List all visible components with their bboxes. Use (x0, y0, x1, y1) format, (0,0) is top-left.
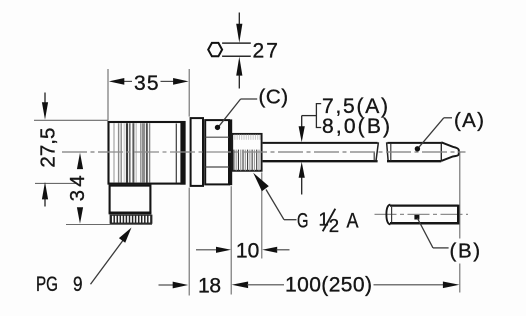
dim 27 lower flat line (222, 55, 251, 57)
dim 27 hexagon symbol (208, 43, 222, 56)
dim 35 left arrow (109, 78, 125, 85)
label (A) leader diagonal (418, 118, 444, 149)
extension line connector bottom (27,5) (35, 182, 76, 184)
fraction slash (323, 209, 336, 232)
svg-text:10: 10 (236, 240, 260, 263)
hex flats lines (205, 136, 228, 138)
extension line probe tip lower part (459, 264, 461, 293)
svg-text:PG: PG (36, 273, 58, 296)
extension line flange-left (35 right / 18 left) upper (188, 69, 190, 117)
PG 9 leader line (91, 239, 125, 284)
dim 35 right arrow (173, 78, 189, 85)
dim 100 left arrow (232, 282, 249, 289)
dim 34 bottom arrow (77, 207, 83, 224)
PG 9 leader arrow (119, 228, 132, 243)
dim 18 left arrow tail (159, 284, 174, 286)
dim 100 line right (374, 284, 445, 286)
thread hatch upper (235, 135, 260, 140)
extension line flange-left lower (188, 188, 190, 296)
label G 1/2 A leader arrow (253, 173, 269, 192)
svg-text:(A): (A) (454, 109, 484, 132)
connector body inner cap line (175, 124, 177, 183)
dim 27 bottom arrow (236, 57, 242, 76)
extension line body-left above (35) (107, 69, 109, 121)
dim 7,5/8,0 down arrow stem (301, 116, 303, 127)
probe B centerline (375, 213, 469, 215)
probe tube B inner chamfer line (391, 207, 393, 222)
probe tube A left segment bottom (263, 160, 378, 162)
probe tube B top (390, 204, 458, 206)
dim 27,5 top arrow (42, 102, 48, 120)
dim 100 line left (247, 284, 284, 286)
tube A break start line (387, 142, 389, 161)
dim 7,5/8,0 bracket (316, 104, 321, 128)
cable gland PG9 (110, 215, 152, 223)
tube A inner chamfer line (390, 144, 392, 161)
connector body (109, 122, 185, 184)
svg-text:18: 18 (198, 275, 221, 298)
dim 27 top arrow (236, 24, 242, 43)
dim 35 line left part (124, 80, 133, 82)
mounting flange (191, 118, 203, 186)
dim 7,5/8,0 down arrow (299, 126, 305, 142)
label (B) leader horizontal (433, 247, 449, 249)
main centerline overlay (62, 151, 466, 153)
label (A) leader horizontal (444, 117, 452, 119)
dim 27,5 top arrow tail (44, 93, 46, 104)
dim 27,5 bottom arrow tail (44, 199, 46, 207)
connector lower block (110, 186, 151, 213)
thread G1/2 body (232, 134, 261, 171)
tube A inner line before break (373, 152, 375, 160)
label G 1/2 A leader horizontal (284, 219, 297, 221)
extension line thread-end (10 right) (261, 172, 263, 258)
svg-text:35: 35 (134, 72, 159, 95)
probe tip chamfer boundary (440, 143, 442, 161)
extension line connector top (27,5) (34, 119, 108, 121)
connector ribs (114, 123, 150, 182)
dim 7,5/8,0 connector line (302, 115, 317, 117)
dim 100 right arrow (443, 282, 460, 289)
probe tube A right segment bottom (387, 160, 441, 162)
gland knurl (110, 215, 152, 223)
dim 10 left arrow tail (196, 249, 217, 251)
svg-text:A: A (347, 210, 359, 233)
label (C) leader diagonal (218, 99, 240, 127)
svg-text:100(250): 100(250) (285, 274, 372, 297)
main centerline (62, 151, 466, 153)
dim 34 top arrow (77, 153, 83, 170)
dim 27 top arrow tail (238, 13, 240, 26)
probe tube B rounded left cap (386, 205, 390, 225)
probe tip (441, 142, 459, 161)
label (B) leader diagonal (417, 218, 433, 248)
dim 10 right arrow (outside) (262, 247, 277, 253)
dim 18 left arrow (outside) (173, 282, 189, 289)
extension line hex-right (18 right / 10 left / 100 left) (230, 186, 232, 294)
hex nut (C) (205, 120, 229, 184)
dim 35 line right part (161, 80, 175, 82)
probe tube A left segment top (263, 142, 378, 144)
dim 10 left arrow (outside) (216, 247, 231, 253)
label G 1/2 A leader diagonal (266, 190, 284, 220)
label (A) dot (415, 146, 420, 151)
probe tube A right segment top (387, 142, 441, 144)
tube A break end line (376, 142, 379, 161)
extension line gland bottom (34) (66, 224, 152, 226)
dim 27 upper flat line (222, 42, 251, 44)
svg-text:(B): (B) (450, 240, 481, 263)
thread hatch lower (234, 150, 259, 171)
connector body mating cap (thick right edge) (180, 121, 185, 185)
label (C) dot (215, 125, 220, 130)
dim 7,5/8,0 up arrow tail (301, 178, 303, 195)
label (B) dot (414, 215, 419, 220)
probe tube B bottom (390, 222, 458, 225)
svg-text:1: 1 (319, 209, 329, 230)
hex nut thick right edge (229, 119, 232, 185)
dim 10 right arrow tail (277, 249, 290, 251)
dim 27 bottom arrow tail (238, 75, 240, 89)
svg-text:(C): (C) (259, 85, 289, 108)
probe tube B right end (457, 205, 460, 225)
lower block thick bottom edge (109, 212, 152, 215)
label (C) leader horizontal (241, 98, 258, 100)
dim 7,5/8,0 up arrow (299, 162, 305, 178)
extension line probe tip (100 right) (459, 152, 461, 239)
svg-text:G: G (297, 210, 309, 233)
svg-text:27,5: 27,5 (37, 128, 60, 168)
svg-text:2: 2 (329, 215, 339, 236)
dim 27,5 bottom arrow (42, 182, 48, 200)
svg-text:9: 9 (73, 273, 83, 296)
